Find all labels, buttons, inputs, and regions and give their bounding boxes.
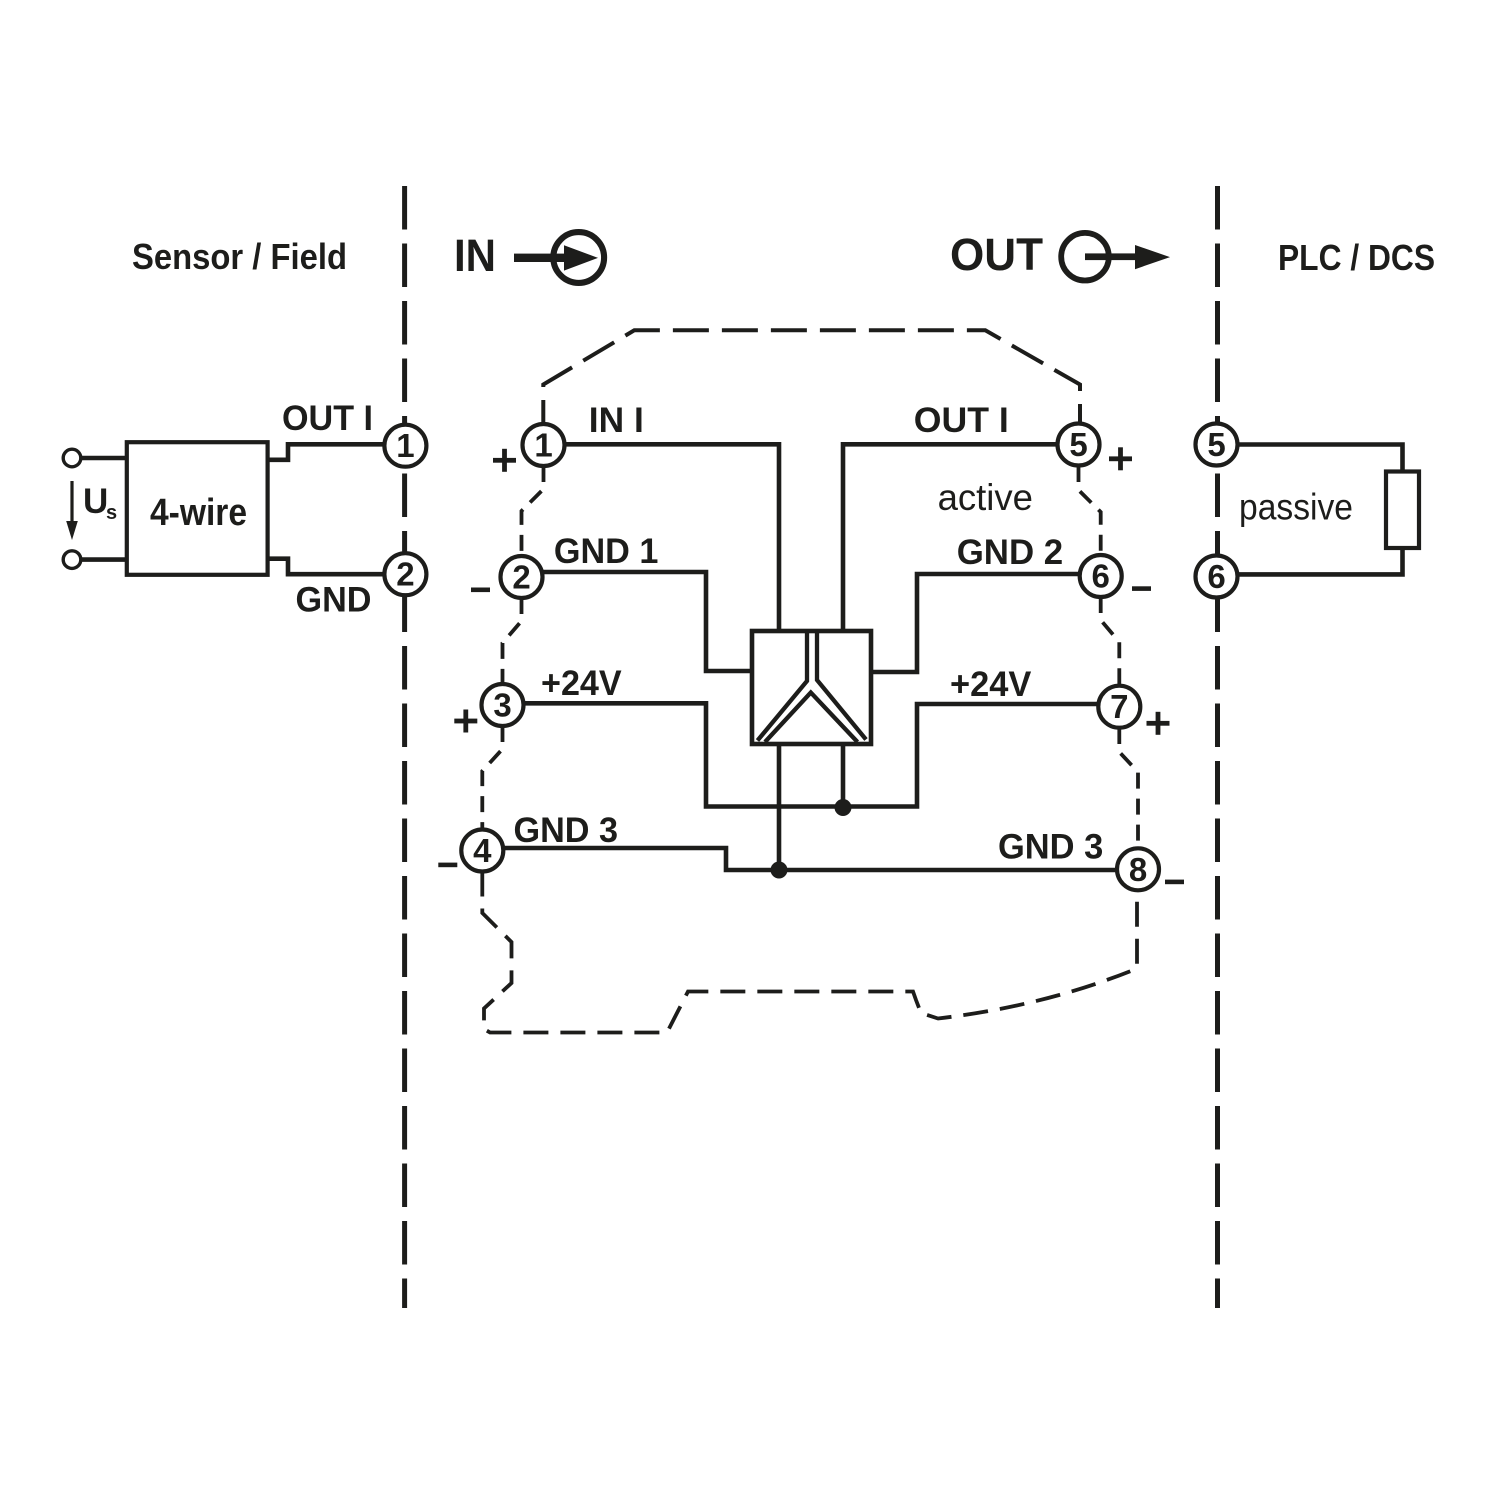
svg-text:4: 4 (473, 832, 492, 869)
module outline dashed link 7-8 (1119, 728, 1138, 848)
svg-text:s: s (106, 502, 117, 524)
module outline dashed bottom (482, 872, 1137, 1033)
PLC terminal 6 (1196, 556, 1238, 598)
module outline dashed link 2-3 (503, 598, 522, 684)
svg-text:6: 6 (1092, 558, 1110, 595)
svg-text:+24V: +24V (950, 665, 1032, 704)
svg-text:OUT: OUT (950, 229, 1043, 280)
svg-text:7: 7 (1110, 688, 1128, 725)
svg-text:4-wire: 4-wire (150, 492, 247, 534)
module outline dashed link 6-7 (1101, 597, 1120, 686)
svg-text:+24V: +24V (541, 664, 622, 703)
svg-text:1: 1 (396, 427, 414, 464)
svg-text:OUT I: OUT I (914, 401, 1009, 440)
sensor terminal bottom circle (63, 551, 81, 569)
IN arrow icon (514, 232, 604, 283)
svg-text:2: 2 (396, 556, 414, 593)
module terminal 4 (461, 830, 503, 872)
module terminal 5 (1058, 424, 1100, 466)
sensor terminal top circle (63, 449, 81, 467)
minus sign terminal 2 (471, 588, 490, 593)
wire IN I (564, 444, 780, 633)
svg-text:6: 6 (1207, 558, 1225, 595)
svg-text:GND 2: GND 2 (957, 533, 1063, 572)
svg-text:1: 1 (534, 427, 552, 464)
plus sign terminal 1 (493, 449, 516, 472)
junction dot on +24V rail (835, 799, 852, 816)
minus sign terminal 6 (1132, 586, 1151, 591)
wire OUT I module (843, 444, 1057, 633)
isolator symbol output vertical to GND3 (777, 744, 782, 870)
svg-text:GND 1: GND 1 (554, 532, 659, 571)
4-wire transmitter box (127, 442, 268, 575)
junction dot on GND3 rail (771, 862, 788, 879)
svg-text:3: 3 (493, 687, 511, 724)
module terminal 1 (523, 424, 565, 466)
svg-text:OUT I: OUT I (282, 399, 373, 438)
svg-text:2: 2 (512, 559, 530, 596)
minus sign terminal 8 (1165, 880, 1184, 885)
wire OUT I field (268, 444, 386, 460)
svg-text:active: active (938, 477, 1033, 518)
module terminal 7 (1098, 686, 1140, 728)
svg-text:5: 5 (1207, 426, 1225, 463)
isolator symbol output vertical to +24V rail (841, 744, 846, 807)
isolator symbol U1 (752, 631, 871, 744)
wire sensor bottom to 4-wire box (81, 557, 127, 562)
svg-text:passive: passive (1239, 487, 1353, 528)
module terminal 8 (1117, 848, 1159, 890)
wire +24V left and bottom rail (521, 703, 1099, 806)
wire GND 2 (869, 574, 1081, 672)
plus sign terminal 3 (454, 710, 477, 733)
PLC terminal 5 (1196, 424, 1238, 466)
module terminal 6 (1080, 555, 1122, 597)
module outline dashed link 1-2 (522, 466, 544, 556)
Us source arrow (66, 481, 78, 540)
minus sign terminal 4 (438, 863, 457, 868)
svg-text:GND: GND (296, 580, 372, 619)
svg-text:GND 3: GND 3 (514, 811, 619, 850)
wire GND 1 (540, 572, 754, 671)
svg-text:5: 5 (1069, 426, 1087, 463)
field terminal 1 (384, 425, 426, 467)
module terminal 2 (501, 556, 543, 598)
PLC boundary dashed line (1215, 186, 1220, 1308)
module outline dashed link 3-4 (482, 726, 502, 830)
plus sign terminal 7 (1147, 712, 1170, 735)
svg-text:8: 8 (1129, 851, 1147, 888)
module outline dashed top (543, 330, 1080, 424)
wire GND field (268, 559, 386, 575)
module outline dashed link 5-6 (1079, 466, 1101, 555)
wire GND 3 (501, 848, 1118, 870)
module terminal 3 (482, 684, 524, 726)
svg-text:IN: IN (454, 230, 496, 281)
wire sensor top to 4-wire box (81, 456, 127, 461)
svg-text:PLC / DCS: PLC / DCS (1278, 237, 1435, 278)
svg-text:Sensor / Field: Sensor / Field (132, 236, 347, 277)
wire load resistor to PLC terminal 6 (1238, 548, 1403, 574)
wire PLC terminal 5 to load resistor (1238, 445, 1403, 472)
svg-text:GND 3: GND 3 (998, 828, 1103, 867)
field boundary dashed line (402, 186, 407, 1308)
OUT arrow icon (1061, 233, 1170, 281)
plus sign terminal 5 (1109, 447, 1132, 470)
load resistor (1386, 472, 1419, 549)
svg-text:U: U (83, 482, 108, 521)
svg-text:IN I: IN I (589, 401, 644, 440)
field terminal 2 (384, 553, 426, 595)
